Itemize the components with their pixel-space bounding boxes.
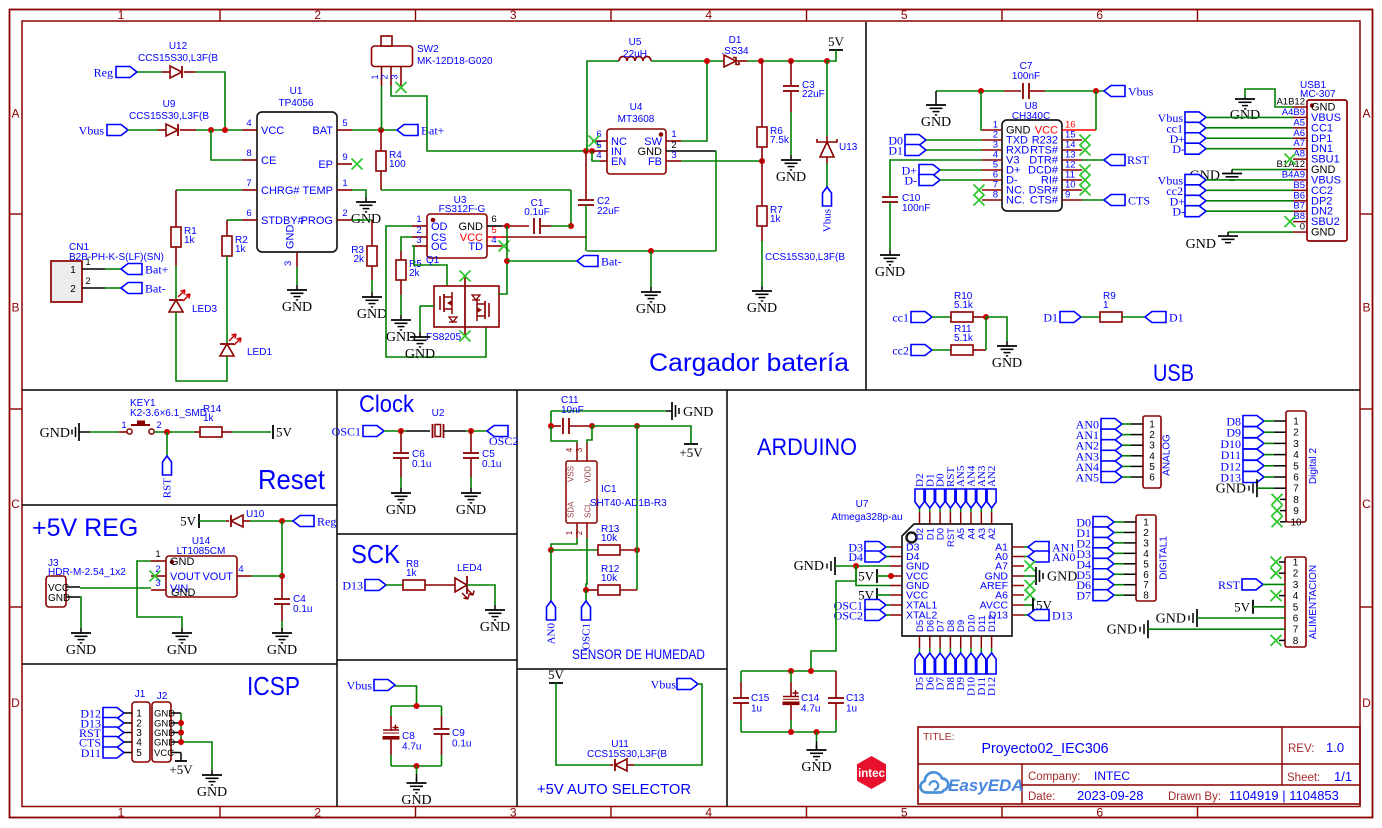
svg-text:8: 8 (246, 148, 251, 159)
svg-text:3: 3 (1293, 439, 1299, 450)
svg-text:AN2: AN2 (986, 466, 998, 487)
wire C1 to node (551, 225, 571, 227)
wire KEY1 to R14 (154, 431, 195, 433)
svg-text:GND: GND (357, 307, 387, 322)
svg-text:B: B (1362, 301, 1370, 315)
connector J1 header (132, 689, 150, 762)
U7 bottom pin D11 (977, 615, 988, 653)
net flag D1 digital1 (1076, 526, 1136, 540)
no-connect U8 pin7 (974, 185, 985, 196)
J2 right pin stubs (171, 713, 181, 753)
junction R12 left (583, 587, 589, 593)
U1 pin 3 GND bottom (283, 225, 297, 268)
svg-text:RST: RST (1127, 153, 1150, 167)
svg-text:DIGITAL1: DIGITAL1 (1159, 536, 1170, 580)
no-connect alimentacion pin4 (1271, 590, 1286, 601)
svg-text:GND: GND (401, 793, 431, 808)
svg-text:Digital 2: Digital 2 (1308, 448, 1319, 485)
section divider horizontal main (22, 389, 1360, 391)
net flag CTS ICSP (79, 736, 132, 750)
net flag Vbus under U13 (822, 187, 834, 232)
resistor R7 1k (757, 161, 783, 241)
connector ANALOG box (1143, 416, 1173, 488)
U7 right pin AREF (980, 580, 1024, 592)
svg-text:6: 6 (1293, 614, 1299, 625)
svg-text:D-: D- (1172, 142, 1185, 156)
power 5V U7 AVCC (1024, 598, 1053, 613)
svg-text:MC-307: MC-307 (1300, 89, 1336, 100)
net flag OSC1 clock (332, 425, 384, 439)
U7 bottom pin D6 (925, 620, 936, 653)
svg-text:3: 3 (155, 578, 160, 589)
capacitor C7 100nF (1004, 61, 1045, 99)
svg-text:A4B9: A4B9 (1282, 107, 1305, 118)
net flag D12 below U7 (986, 653, 998, 696)
net flag D13 SCK (342, 579, 386, 593)
power 5V U7 VCC1 (858, 569, 890, 584)
wire inductor to D1 (651, 60, 724, 62)
power 5V auto selector (548, 667, 565, 683)
title block Company (1028, 769, 1130, 783)
svg-text:GND: GND (456, 503, 486, 518)
svg-text:4: 4 (136, 738, 142, 749)
svg-text:7: 7 (246, 178, 251, 189)
svg-text:1: 1 (416, 214, 421, 225)
svg-text:A7: A7 (1293, 138, 1305, 149)
net flag D- USB (904, 174, 982, 188)
svg-text:1: 1 (342, 178, 347, 189)
svg-text:VDD: VDD (584, 466, 593, 483)
svg-text:GND: GND (405, 347, 435, 362)
svg-text:Q1: Q1 (426, 255, 440, 266)
svg-text:C14: C14 (801, 693, 820, 704)
svg-text:B2B-PH-K-S(LF)(SN): B2B-PH-K-S(LF)(SN) (69, 252, 164, 263)
power +5V under J2 pin5 (169, 753, 193, 778)
ground U7 right (1024, 567, 1077, 585)
svg-text:4: 4 (246, 118, 251, 129)
junction U7 VCC1 (888, 573, 894, 579)
junction VOUT node (279, 573, 285, 579)
svg-text:1k: 1k (203, 413, 215, 424)
svg-text:GND: GND (747, 301, 777, 316)
svg-text:D11: D11 (81, 746, 101, 760)
net flag OSC1 U7 (834, 599, 890, 613)
wire R5 top from CS (401, 237, 412, 251)
svg-text:0.1uF: 0.1uF (524, 207, 550, 218)
junction Bat- node (504, 258, 510, 264)
svg-text:Vbus: Vbus (1128, 85, 1154, 99)
power 5V top (827, 34, 845, 61)
svg-text:22uH: 22uH (623, 49, 647, 60)
svg-text:A: A (1362, 107, 1370, 121)
svg-text:Bat+: Bat+ (145, 263, 169, 277)
svg-text:1: 1 (118, 806, 125, 820)
svg-text:CCS15S30,L3F(B: CCS15S30,L3F(B (138, 53, 218, 64)
wire bottom rail cargador (587, 250, 716, 252)
net flag OSC1 sensor (581, 601, 593, 650)
svg-text:3: 3 (283, 261, 294, 266)
svg-text:B6: B6 (1293, 190, 1305, 201)
svg-text:GND: GND (992, 356, 1022, 371)
IC U1 TP4056 body (257, 86, 337, 252)
svg-text:Reset: Reset (258, 464, 325, 495)
svg-text:TD: TD (468, 241, 483, 253)
ground USB1 mid (1190, 169, 1293, 184)
USB1 pin A5 CC1 (1293, 117, 1333, 134)
ground R10 R11 (992, 341, 1022, 371)
wire C7 rail (936, 90, 1104, 92)
svg-text:3: 3 (390, 74, 400, 79)
svg-text:A2: A2 (987, 528, 998, 540)
svg-text:MT3608: MT3608 (618, 114, 655, 125)
net flag Bat+ right (397, 124, 445, 138)
svg-text:OSC1: OSC1 (332, 425, 361, 439)
svg-text:INTEC: INTEC (1094, 769, 1130, 783)
svg-text:100nF: 100nF (1012, 71, 1040, 82)
no-connect U8 pin11 (1080, 175, 1091, 186)
wire Vbus to caps (395, 686, 417, 706)
svg-text:2k: 2k (353, 254, 365, 265)
section divider vertical reset/clock (336, 390, 338, 807)
svg-text:2: 2 (1143, 528, 1149, 539)
wire BAT to Bat+ flag (352, 129, 397, 131)
junction IN node C2 (583, 148, 589, 154)
U7 right pin AVCC (980, 600, 1024, 612)
svg-text:D13: D13 (342, 579, 363, 593)
frame column ticks bottom (220, 807, 1198, 819)
wire OSC1 drop (585, 590, 587, 601)
svg-text:B7: B7 (1293, 201, 1305, 212)
svg-text:VCC: VCC (261, 125, 284, 137)
net flag Vbus USB1-1 (1158, 111, 1293, 125)
svg-text:1104919 | 1104853: 1104919 | 1104853 (1229, 788, 1339, 803)
svg-text:CTS#: CTS# (1030, 195, 1059, 207)
junction top rail R6 node (758, 58, 764, 64)
svg-text:6: 6 (491, 214, 496, 225)
svg-text:U7: U7 (856, 499, 869, 510)
net flag Vbus mid (347, 679, 395, 693)
net flag AN5 above U7 (955, 465, 967, 508)
U4 pin 4 EN (596, 150, 626, 168)
svg-text:2: 2 (85, 276, 90, 287)
wire D13 to R8 (386, 584, 403, 586)
wire CHRG to R1 (176, 189, 242, 191)
net flag RST alimentacion (1218, 578, 1285, 592)
capacitor C14 4.7u polarized (783, 671, 821, 732)
wire IC1 pin2 to OSC1 node (586, 538, 587, 590)
svg-text:7: 7 (1143, 580, 1149, 591)
wire caps top rail (391, 705, 442, 707)
wire U3 VCC red to rail (502, 236, 587, 238)
junction C1 right node (568, 223, 574, 229)
junction clock left (398, 428, 404, 434)
wire SW2 pin2 to U4 IN (391, 86, 586, 151)
net flag OSC2 U7 (834, 609, 890, 623)
svg-text:3: 3 (1149, 441, 1155, 452)
net flag Reg (94, 66, 137, 80)
svg-text:ALIMENTACION: ALIMENTACION (1308, 565, 1319, 639)
svg-text:5: 5 (901, 8, 908, 22)
connector CN1 B2B-PH-K-S (51, 242, 164, 302)
ground Q1 source (405, 306, 435, 362)
USB1 pin A4B9 VBUS (1282, 107, 1341, 124)
svg-text:CE: CE (261, 155, 276, 167)
junction node VCC-2 (222, 127, 228, 133)
U1 pin 8 CE (242, 148, 276, 167)
diode U10 (226, 509, 265, 527)
svg-text:ANALOG: ANALOG (1162, 434, 1173, 476)
svg-text:D1: D1 (888, 144, 903, 158)
wire to Bat- flag (507, 260, 577, 262)
wire U13 to Vbus flag (826, 163, 828, 187)
svg-text:U2: U2 (432, 408, 445, 419)
svg-text:22uF: 22uF (597, 206, 620, 217)
svg-text:5: 5 (342, 118, 347, 129)
svg-text:OSC1: OSC1 (581, 623, 593, 650)
svg-text:3: 3 (416, 235, 421, 246)
svg-text:4: 4 (596, 150, 601, 161)
svg-text:4: 4 (1149, 451, 1155, 462)
svg-text:cc1: cc1 (892, 311, 909, 325)
svg-text:HDR-M-2.54_1x2: HDR-M-2.54_1x2 (48, 567, 126, 578)
wire R3 to ground (371, 280, 373, 292)
svg-text:GND: GND (776, 170, 806, 185)
svg-text:6: 6 (1143, 570, 1149, 581)
net flag AN4 above U7 (966, 465, 978, 508)
svg-text:FS8205: FS8205 (426, 332, 461, 343)
svg-text:5.1k: 5.1k (954, 333, 974, 344)
U8 pin 12 DCD# (1028, 160, 1082, 177)
net flag D- USB1-1 (1172, 142, 1293, 156)
svg-text:Vbus: Vbus (651, 678, 677, 692)
wire J3 GND down (80, 597, 81, 628)
svg-text:4: 4 (705, 806, 712, 820)
svg-text:3: 3 (671, 150, 676, 161)
svg-text:VOUT: VOUT (202, 571, 233, 583)
junction top rail SW node (704, 58, 710, 64)
wire CN1 pin2 to Bat- (105, 287, 121, 289)
ground digital2 pin7 (1216, 479, 1286, 497)
U3 pin 2 CS (412, 225, 446, 244)
wire sensor top rail (551, 410, 666, 412)
net flag cc2 pulldown (892, 344, 951, 358)
U8 pin 7 NC. (982, 180, 1025, 197)
wire TEMP to GND (352, 190, 366, 197)
svg-text:+5V: +5V (679, 445, 703, 460)
svg-text:GND: GND (801, 760, 831, 775)
ground under C5 (456, 488, 486, 518)
junction sensor 5V node (634, 423, 640, 429)
svg-text:OSC2: OSC2 (489, 434, 518, 448)
net flag D0 digital1 (1076, 516, 1136, 530)
net flag RST ICSP (79, 726, 132, 740)
resistor R13 10k horizontal (551, 524, 637, 555)
USB1 pin B8 SBU2 (1293, 211, 1340, 228)
net flag Vbus auto selector (651, 678, 698, 692)
svg-text:SCK: SCK (351, 539, 401, 569)
svg-text:MK-12D18-G020: MK-12D18-G020 (417, 56, 493, 67)
U1 pin 7 CHRG# (242, 178, 300, 197)
svg-text:1: 1 (370, 74, 380, 79)
junction U7 GND1 (853, 563, 859, 569)
wire C7 to U8 pin1 (981, 91, 982, 130)
svg-text:TEMP: TEMP (302, 185, 333, 197)
svg-text:1.0: 1.0 (1326, 740, 1344, 755)
svg-text:U12: U12 (169, 41, 188, 52)
svg-text:Reg: Reg (94, 66, 113, 80)
capacitor C1 0.1uF (524, 198, 551, 234)
svg-text:2: 2 (314, 806, 321, 820)
no-connect USB1 SBU2 (1285, 216, 1296, 227)
svg-text:GND: GND (1186, 237, 1216, 252)
svg-text:7: 7 (1293, 484, 1299, 495)
svg-text:U9: U9 (163, 99, 176, 110)
resistor R14 1k (195, 404, 271, 437)
svg-text:3: 3 (575, 447, 584, 452)
svg-text:6: 6 (246, 208, 251, 219)
net flag AN3 above U7 (976, 465, 988, 508)
svg-text:GND: GND (282, 300, 312, 315)
net flag D3 U7 (848, 541, 890, 555)
svg-text:5: 5 (901, 806, 908, 820)
svg-text:RST: RST (1218, 578, 1241, 592)
svg-text:10nF: 10nF (561, 405, 584, 416)
junction caps bottom rail (788, 729, 794, 735)
resistor R10 5.1k (951, 291, 986, 322)
section divider clock/sck (337, 533, 517, 535)
net flag D2 digital1 (1076, 536, 1136, 550)
U3 pin 5 VCC (460, 225, 502, 244)
U7 bottom pin D10 (967, 615, 978, 653)
ground at U1 TEMP (351, 197, 381, 227)
svg-text:1k: 1k (184, 235, 196, 246)
U1 pin 1 TEMP (302, 178, 352, 197)
USB1 pin 0 GND (1293, 222, 1336, 239)
svg-text:Clock: Clock (359, 391, 415, 418)
svg-text:GND: GND (285, 225, 297, 250)
ground under C6 (386, 488, 416, 518)
svg-text:2: 2 (1149, 430, 1155, 441)
net flag D1 USB (888, 144, 982, 158)
U8 pin 15 R232 (1032, 130, 1082, 147)
U3 pin 3 OC (412, 235, 448, 253)
no-connect alimentacion pin1 (1271, 557, 1286, 568)
junction bottom rail (648, 248, 654, 254)
svg-text:8: 8 (1143, 591, 1149, 602)
wire rail to ground arduino (816, 732, 818, 750)
ground under C10 (875, 250, 905, 280)
net flag D13 ICSP (80, 717, 132, 731)
net flag D+ USB1-2 (1170, 194, 1293, 208)
wire sensor divider vertical (636, 426, 638, 590)
U7 right pin A0 (995, 551, 1024, 563)
svg-text:0: 0 (1300, 222, 1305, 233)
net flag D12 digital2 (1220, 459, 1286, 473)
net flag D7 below U7 (935, 653, 947, 690)
svg-text:Vbus: Vbus (79, 124, 105, 138)
power +5V sensor (679, 444, 703, 460)
svg-text:D-: D- (904, 174, 917, 188)
svg-text:A: A (11, 107, 19, 121)
svg-text:D: D (11, 696, 20, 710)
U14 pin 2 VOUT no-connect (150, 564, 201, 583)
svg-text:GND: GND (40, 426, 70, 441)
svg-text:+5V REG: +5V REG (32, 514, 138, 542)
capacitor C10 100nF (882, 193, 930, 250)
title block Drawn By (1168, 788, 1339, 803)
ground at U1 GND pin (282, 285, 312, 315)
section divider reset/+5vreg (22, 504, 337, 506)
svg-text:EP: EP (318, 159, 333, 171)
U8 pin 6 D- (982, 170, 1018, 187)
wire AN0 drop (550, 550, 552, 601)
IC U7 Atmega328p-au body (831, 499, 1012, 636)
svg-text:IC1: IC1 (601, 484, 617, 495)
svg-text:AN5: AN5 (1076, 471, 1099, 485)
wire EN branch (592, 151, 600, 161)
svg-text:D: D (1362, 696, 1371, 710)
net flag AN1 analog (1076, 428, 1143, 442)
svg-text:Bat+: Bat+ (421, 124, 445, 138)
U7 top pin D0 (936, 508, 947, 540)
net flag Bat- at CN1 (121, 282, 166, 296)
wire U9 to U1 VCC (196, 129, 242, 131)
wire J3 VCC to U14 VIN (80, 587, 151, 589)
svg-text:4.7u: 4.7u (801, 704, 820, 715)
svg-text:Bat-: Bat- (601, 255, 622, 269)
junction J2 pin3 (178, 730, 184, 736)
junction U3 GND node (504, 223, 510, 229)
wire U4 FB to divider (681, 160, 762, 162)
svg-text:6: 6 (1293, 473, 1299, 484)
svg-text:10k: 10k (601, 533, 618, 544)
net flag RST USB (1082, 153, 1150, 167)
wire U10 to Reg flag (250, 520, 293, 522)
svg-text:OC: OC (431, 241, 448, 253)
svg-text:STDBY#: STDBY# (261, 215, 305, 227)
svg-text:AN0: AN0 (1052, 550, 1075, 564)
svg-text:5.1k: 5.1k (954, 300, 974, 311)
no-connect U8 pin15 (1080, 135, 1091, 146)
ground U14 GND (167, 628, 197, 658)
svg-text:A5: A5 (1293, 117, 1305, 128)
svg-text:CCS15S30,L3F(B: CCS15S30,L3F(B (587, 749, 667, 760)
net flag RST above U7 (945, 467, 957, 508)
svg-text:PROG: PROG (301, 215, 333, 227)
net flag D5 below U7 (914, 653, 926, 690)
U8 pin 9 CTS# (1030, 190, 1082, 207)
USB1 pin B7 DN2 (1293, 201, 1333, 218)
ground arduino caps (801, 745, 831, 775)
IC1 pin 3 top (575, 443, 587, 461)
net flag D1 above U7 (924, 474, 936, 508)
wire LED bottom link (176, 312, 227, 381)
svg-text:D13: D13 (989, 610, 1008, 622)
wire R9 to D1 flag (1122, 316, 1145, 318)
IC1 pin 1 bottom (565, 523, 577, 538)
junction R13 right (634, 547, 640, 553)
junction C11 left (548, 423, 554, 429)
junction C7 right (1093, 88, 1099, 94)
svg-text:GND: GND (1311, 227, 1336, 239)
frame row ticks right (1360, 214, 1373, 607)
svg-text:6: 6 (1149, 473, 1155, 484)
net flag CTS USB (1082, 194, 1150, 208)
svg-text:CCS15S30,L3F(B: CCS15S30,L3F(B (129, 111, 209, 122)
IC U4 MT3608 body (607, 102, 666, 174)
net flag Vbus input (79, 124, 128, 138)
svg-text:U13: U13 (839, 142, 858, 153)
